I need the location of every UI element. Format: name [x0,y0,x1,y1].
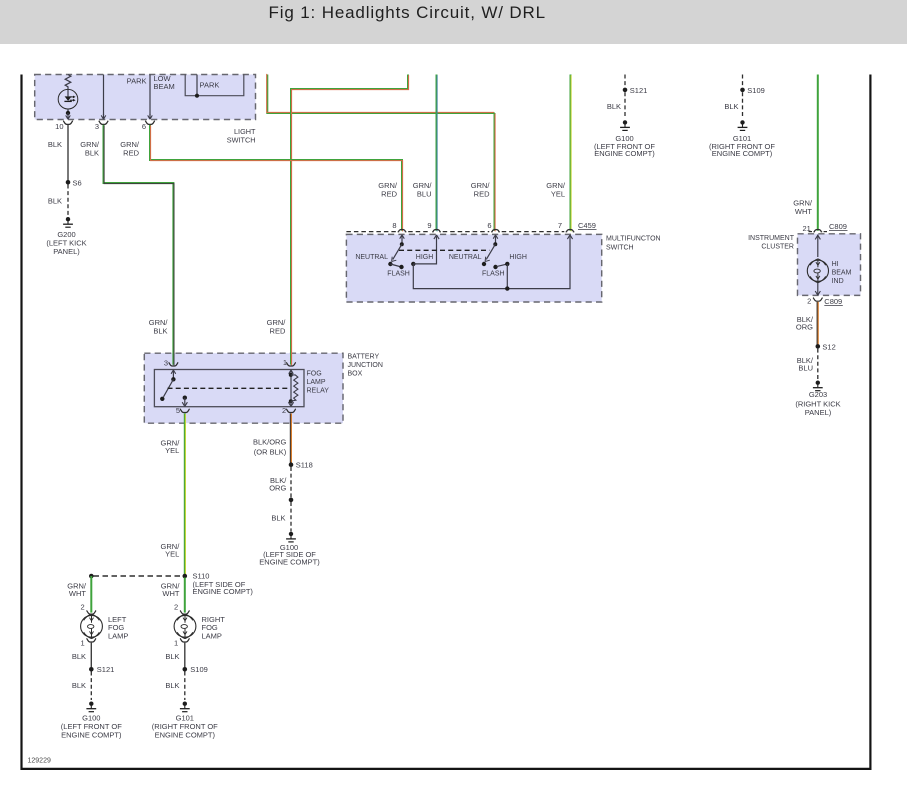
ground G100 (left side of engine compt) [289,532,293,536]
relay pivot dot [171,377,175,381]
rail junction dot [505,286,509,290]
svg-text:S118: S118 [296,460,313,469]
svg-text:1: 1 [174,639,178,648]
relay coil arrow to pin 2 [290,401,292,405]
splice S121 (top) [623,88,628,93]
svg-text:C809: C809 [829,222,847,231]
svg-text:BLK: BLK [607,102,621,111]
relay mechanical link dashed [168,387,289,389]
svg-text:6: 6 [142,122,146,131]
wire GRN/BLU from top to multifunction switch pin 9 [436,75,438,231]
svg-text:ENGINE COMPT): ENGINE COMPT) [193,587,254,596]
svg-text:Fig 1: Headlights Circuit, W/: Fig 1: Headlights Circuit, W/ DRL [269,3,546,22]
svg-text:WHT: WHT [69,589,86,598]
svg-text:BLK: BLK [271,513,285,522]
ground G100 (bottom) [89,702,93,706]
svg-text:BLK: BLK [165,681,179,690]
svg-text:10: 10 [55,122,63,131]
ground G101 (bottom) [183,702,187,706]
splice S109 (top) [740,88,745,93]
svg-text:7: 7 [558,221,562,230]
instrument cluster box [798,234,861,296]
wire GRN/WHT from top to instrument cluster pin 21 [817,75,819,231]
gang 1 lever [393,244,402,259]
svg-text:PARK: PARK [200,81,220,90]
relay coil winding [291,375,298,401]
wire GRN/YEL relay pin 5 to splice S110 [184,413,186,574]
svg-text:BOX: BOX [348,371,363,378]
svg-text:MULTIFUNCTON: MULTIFUNCTON [606,236,661,243]
wire BLK light switch pin 10 to splice S6 [67,125,69,181]
svg-text:C809: C809 [824,297,842,306]
svg-text:3: 3 [95,122,99,131]
relay contact dot (N.O.) [160,397,164,401]
svg-text:BLK: BLK [165,652,179,661]
high beam rail to pin 7 [413,236,570,288]
wire BLK/BLU dashed S12 to ground G203 [817,349,819,379]
svg-text:RED: RED [381,189,397,198]
svg-text:G203: G203 [809,390,827,399]
svg-text:5: 5 [176,406,180,415]
svg-text:G101: G101 [176,714,194,723]
svg-text:HIGH: HIGH [509,254,527,261]
svg-text:ORG: ORG [269,484,286,493]
svg-text:S121: S121 [97,665,115,674]
svg-text:NEUTRAL: NEUTRAL [449,254,482,261]
wire BLK dashed S6 to ground G200 [67,185,69,217]
svg-text:BLK: BLK [48,197,62,206]
svg-text:INSTRUMENT: INSTRUMENT [748,235,795,242]
svg-text:GRN/: GRN/ [793,198,813,207]
low beam feed line (pin 6 internal) [149,75,151,116]
gang 2 pivot dot [493,242,497,246]
battery junction box [144,353,343,423]
svg-text:PANEL): PANEL) [805,408,832,417]
svg-text:BLK/ORG: BLK/ORG [253,438,287,447]
svg-text:G100: G100 [82,714,100,723]
wire GRN/RED from top to multifunction switch pin 6 [267,75,494,114]
svg-text:BATTERY: BATTERY [348,353,380,360]
relay switch arrow (pin 3) [172,371,174,379]
svg-text:YEL: YEL [551,189,565,198]
ground G101 (top right) [740,120,744,124]
hi beam indicator lamp [807,260,828,281]
svg-text:ENGINE COMPT): ENGINE COMPT) [594,149,655,158]
svg-text:YEL: YEL [165,550,179,559]
svg-text:SWITCH: SWITCH [606,245,634,252]
svg-text:LAMP: LAMP [108,632,128,641]
svg-text:FOG: FOG [307,371,322,378]
wire BLK/ORG relay pin 2 to splice S118 [290,413,292,463]
wire GRN/RED from top to battery junction box pin 1 [291,75,408,365]
svg-text:BEAM: BEAM [832,270,852,277]
svg-text:RELAY: RELAY [307,388,330,395]
gang 2 NEUTRAL contact [482,262,486,266]
ground G100 (top left) [623,120,627,124]
svg-text:9: 9 [427,221,431,230]
svg-text:3: 3 [164,358,168,367]
svg-text:2: 2 [81,603,85,612]
svg-text:129229: 129229 [28,758,51,765]
splice S6 [66,180,71,185]
multifunction switch box [346,234,601,302]
relay output dot and arrow to pin 5 [183,396,187,400]
gang 1 FLASH contact [390,264,401,267]
svg-text:FLASH: FLASH [387,271,410,278]
splice S109 (bottom) [183,667,188,672]
mechanical link dashed (gang1-gang2) [399,249,490,251]
svg-text:S121: S121 [630,86,648,95]
wire BLK dashed S121 to ground G100 [90,672,92,701]
gang 1 HIGH contact [411,262,415,266]
wire GRN/WHT to left fog lamp pin 2 [90,576,92,613]
svg-text:BLK: BLK [48,140,62,149]
right fog lamp [174,615,196,637]
svg-text:HIGH: HIGH [416,254,434,261]
svg-text:6: 6 [487,221,491,230]
gang 2 FLASH contact [493,265,497,269]
wire BLK right fog lamp to splice S109 [184,643,186,668]
switch gang 1 common arrow (pin 8) [401,236,403,244]
svg-text:LAMP: LAMP [202,632,222,641]
switch gang 2 common arrow (pin 6) [495,236,497,244]
svg-text:ENGINE COMPT): ENGINE COMPT) [259,558,320,567]
svg-text:SWITCH: SWITCH [227,135,256,144]
wire BLK/ORG dashed S118 to junction [290,467,292,498]
svg-text:RED: RED [270,326,286,335]
wire gang2 HIGH down to rail [506,264,508,289]
gang 1 pivot dot [400,242,404,246]
wire BLK dashed S109 to ground G101 [184,672,186,701]
svg-text:BLU: BLU [798,364,813,373]
svg-text:S6: S6 [73,179,82,188]
park feed line (pin 3 internal) [103,75,105,116]
svg-text:S109: S109 [747,86,765,95]
svg-text:RED: RED [123,148,139,157]
splice S118 [289,462,294,467]
svg-text:S12: S12 [822,342,835,351]
wire GRN/BLK light switch pin 3 to fog lamp relay pin 3 [104,125,174,365]
junction dot left fog feed [89,574,94,579]
left fog lamp [81,615,103,637]
svg-text:WHT: WHT [795,207,812,216]
gang 2 HIGH contact [505,262,509,266]
svg-text:BLK: BLK [153,326,167,335]
svg-text:NEUTRAL: NEUTRAL [355,254,388,261]
splice S121 (bottom) [89,667,94,672]
svg-text:IND: IND [832,278,844,285]
wire GRN/WHT to right fog lamp pin 2 [184,578,186,613]
wire GRN/YEL from top to multifunction switch pin 7 [570,75,572,231]
wire BLK dashed S121 to ground G100 [624,92,626,118]
svg-text:BLK: BLK [724,102,738,111]
arrow to pin 10 [67,113,69,118]
junction dot (unnamed splice) [289,498,294,503]
svg-text:YEL: YEL [165,446,179,455]
svg-text:2: 2 [282,406,286,415]
svg-text:C459: C459 [578,221,596,230]
gang 2 FLASH to HIGH link [497,264,507,266]
svg-text:ORG: ORG [796,323,813,332]
cluster feed arrow [817,235,819,258]
wire BLK left fog lamp to splice S121 [90,643,92,668]
wire GRN/RED light switch pin 6 to multifunction switch pin 8 [150,125,402,231]
svg-text:BLK: BLK [85,148,99,157]
connector C809 (pin 21) [809,231,813,233]
park sub-box (light switch internal) [185,75,244,96]
svg-text:HI: HI [832,261,839,268]
svg-text:CLUSTER: CLUSTER [761,244,794,251]
svg-text:2: 2 [807,297,811,306]
svg-text:ENGINE COMPT): ENGINE COMPT) [712,149,773,158]
LED / DRL module circle U1 [58,89,78,109]
header bar [0,0,907,44]
ground G203 [816,381,820,385]
svg-text:21: 21 [802,224,810,233]
svg-text:8: 8 [392,221,396,230]
splice S12 [816,344,821,349]
wire BLK dashed S109 to ground G101 [742,92,744,118]
wire BLK/ORG cluster pin 2 to splice S12 [817,302,819,345]
connector C459 dashed line [346,231,395,233]
svg-text:LAMP: LAMP [307,379,326,386]
svg-text:BLU: BLU [417,189,432,198]
wire dashed from top to splice S109 [742,75,744,88]
junction dot below LED [66,111,70,115]
wire dashed from top to splice S121 [624,75,626,88]
svg-text:ENGINE COMPT): ENGINE COMPT) [61,731,122,740]
wire gang1 HIGH to pin 9 [413,236,436,264]
svg-text:(OR BLK): (OR BLK) [254,448,287,457]
relay lever [164,379,174,397]
svg-text:RED: RED [474,189,490,198]
svg-text:ENGINE COMPT): ENGINE COMPT) [155,731,216,740]
resistor (light switch internal) [65,75,71,90]
fog lamp relay box [154,370,304,407]
splice S110 and dashed tie to left fog lamp [183,574,188,579]
light switch box [35,75,256,120]
wire BLK dashed to ground G100 (left side) [290,502,292,532]
ground G200 [66,217,70,221]
svg-text:1: 1 [81,639,85,648]
svg-text:BEAM: BEAM [154,82,175,91]
gang 2 lever [486,244,495,259]
svg-text:FLASH: FLASH [482,271,505,278]
svg-text:BLK: BLK [72,681,86,690]
gang 1 NEUTRAL contact [388,262,392,266]
svg-text:2: 2 [174,603,178,612]
wire dashed S110 to left fog lamp feed [94,575,183,577]
svg-text:WHT: WHT [162,589,179,598]
lamp to pin 2 arrow [817,283,819,295]
svg-text:BLK: BLK [72,652,86,661]
svg-text:JUNCTION: JUNCTION [348,362,383,369]
svg-text:PARK: PARK [127,77,147,86]
svg-text:PANEL): PANEL) [53,247,80,256]
sub-box internal line and dot [196,75,198,96]
svg-text:S109: S109 [190,665,208,674]
relay coil line (pin 1 to pin 2) [290,371,292,376]
